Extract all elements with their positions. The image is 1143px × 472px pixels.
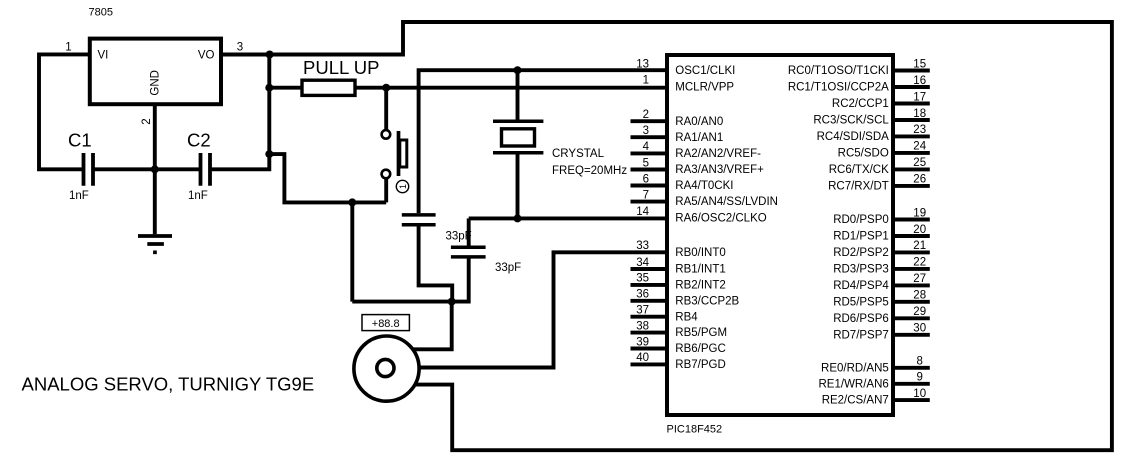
svg-text:13: 13 xyxy=(636,58,649,70)
svg-text:29: 29 xyxy=(913,306,926,318)
svg-text:28: 28 xyxy=(913,290,926,302)
svg-text:14: 14 xyxy=(636,206,649,218)
svg-text:RB3/CCP2B: RB3/CCP2B xyxy=(675,295,739,307)
crystal X1 xyxy=(493,121,543,153)
pin 35 stub xyxy=(631,283,668,287)
pin 28 stub xyxy=(893,300,930,304)
svg-text:C1: C1 xyxy=(68,130,92,151)
pin 9 stub xyxy=(893,382,930,386)
svg-text:RB0/INT0: RB0/INT0 xyxy=(675,247,726,259)
wire crystal top branch xyxy=(516,70,520,119)
svg-text:34: 34 xyxy=(636,257,649,269)
svg-text:2: 2 xyxy=(643,109,649,121)
pin 38 stub xyxy=(631,331,668,335)
svg-text:26: 26 xyxy=(913,174,926,186)
svg-text:27: 27 xyxy=(913,273,926,285)
svg-text:RD2/PSP2: RD2/PSP2 xyxy=(833,247,889,259)
pin 39 stub xyxy=(631,347,668,351)
wire cap2 bottom to rail xyxy=(352,257,468,302)
ground symbol xyxy=(138,236,172,252)
capacitor C2 xyxy=(201,153,211,186)
junction dot 5 xyxy=(514,66,522,74)
wire +5V border loop (VO to top, right, bottom, servo) xyxy=(221,22,1112,450)
svg-text:RB7/PGD: RB7/PGD xyxy=(675,359,726,371)
junction dot 6 xyxy=(514,214,522,222)
svg-text:7: 7 xyxy=(643,189,649,201)
svg-text:35: 35 xyxy=(636,273,649,285)
svg-text:RE0/RD/AN5: RE0/RD/AN5 xyxy=(821,362,889,374)
pin 24 stub xyxy=(893,151,930,155)
svg-text:MCLR/VPP: MCLR/VPP xyxy=(675,82,734,94)
svg-text:RA5/AN4/SS/LVDIN: RA5/AN4/SS/LVDIN xyxy=(675,196,778,208)
wire branch down to caps rail xyxy=(350,202,354,301)
svg-text:19: 19 xyxy=(913,207,926,219)
svg-text:22: 22 xyxy=(913,257,926,269)
svg-text:RB4: RB4 xyxy=(675,311,698,323)
junction dot 2 xyxy=(265,84,273,92)
svg-text:33pF: 33pF xyxy=(446,230,472,242)
button circled marker xyxy=(396,180,408,192)
svg-text:40: 40 xyxy=(636,352,649,364)
servo motor hub xyxy=(377,359,394,376)
svg-text:33: 33 xyxy=(636,240,649,252)
svg-text:3: 3 xyxy=(643,125,649,137)
svg-text:RD7/PSP7: RD7/PSP7 xyxy=(833,329,889,341)
svg-text:20: 20 xyxy=(913,224,926,236)
wire button top xyxy=(384,88,388,130)
svg-text:RA0/AN0: RA0/AN0 xyxy=(675,116,723,128)
svg-text:VO: VO xyxy=(198,50,215,62)
pin 29 stub xyxy=(893,316,930,320)
svg-text:PIC18F452: PIC18F452 xyxy=(667,424,723,436)
pin 4 stub xyxy=(631,151,668,155)
pin 10 stub xyxy=(893,398,930,402)
svg-text:30: 30 xyxy=(913,323,926,335)
wire C2 to +5V riser xyxy=(210,154,269,169)
wire riser to pull-up xyxy=(269,86,302,90)
pin 34 stub xyxy=(631,267,668,271)
voltage regulator 7805 xyxy=(90,39,221,105)
microcontroller U1 PIC18F452 body xyxy=(667,55,893,415)
svg-text:RB2/INT2: RB2/INT2 xyxy=(675,280,726,292)
svg-text:17: 17 xyxy=(913,91,926,103)
wire OSC1 net to PIC pin 13 xyxy=(419,70,667,213)
svg-text:39: 39 xyxy=(636,336,649,348)
resistor PULL UP xyxy=(302,80,355,95)
svg-text:OSC1/CLKI: OSC1/CLKI xyxy=(675,65,735,77)
svg-text:18: 18 xyxy=(913,108,926,120)
svg-text:16: 16 xyxy=(913,75,926,87)
svg-text:RC1/T1OSI/CCP2A: RC1/T1OSI/CCP2A xyxy=(788,82,889,94)
pin 37 stub xyxy=(631,315,668,319)
capacitor C1 xyxy=(84,153,94,186)
svg-text:RC4/SDI/SDA: RC4/SDI/SDA xyxy=(817,131,890,143)
svg-text:1nF: 1nF xyxy=(188,190,208,202)
junction dot 4 xyxy=(382,84,390,92)
pin 27 stub xyxy=(893,283,930,287)
svg-text:RB5/PGM: RB5/PGM xyxy=(675,327,727,339)
button actuator bar xyxy=(397,131,401,176)
pin 6 stub xyxy=(631,184,668,188)
pin 17 stub xyxy=(893,102,930,106)
svg-text:RC5/SDO: RC5/SDO xyxy=(838,148,889,160)
svg-text:RC0/T1OSO/T1CKI: RC0/T1OSO/T1CKI xyxy=(788,65,889,77)
svg-text:21: 21 xyxy=(913,240,926,252)
wire crystal bottom to pin14 rail xyxy=(516,155,520,219)
pin 40 stub xyxy=(631,362,668,366)
svg-text:4: 4 xyxy=(643,141,650,153)
wire cap2 riser xyxy=(467,218,471,245)
svg-text:3: 3 xyxy=(237,41,243,53)
svg-text:10: 10 xyxy=(913,388,926,400)
svg-text:RC7/RX/DT: RC7/RX/DT xyxy=(828,181,889,193)
pin 8 stub xyxy=(893,366,930,370)
svg-text:RA6/OSC2/CLKO: RA6/OSC2/CLKO xyxy=(675,213,766,225)
wire OSC2 net to PIC pin 14 xyxy=(469,216,667,220)
svg-text:1: 1 xyxy=(65,41,71,53)
pin 18 stub xyxy=(893,118,930,122)
svg-text:RB1/INT1: RB1/INT1 xyxy=(675,264,726,276)
wire C1 to C2 rail xyxy=(93,167,201,171)
display box +88.8 xyxy=(362,315,409,331)
pin 7 stub xyxy=(631,200,668,204)
svg-text:CRYSTAL: CRYSTAL xyxy=(552,148,605,160)
pin 16 stub xyxy=(893,85,930,89)
pin 26 stub xyxy=(893,184,930,188)
pin 25 stub xyxy=(893,167,930,171)
junction dot 3 xyxy=(265,150,273,158)
junction dot 8 xyxy=(348,198,356,206)
wire VI input down to C1 xyxy=(39,54,90,169)
pin 22 stub xyxy=(893,267,930,271)
svg-text:RD1/PSP1: RD1/PSP1 xyxy=(833,231,889,243)
pin 3 stub xyxy=(631,135,668,139)
svg-text:RD6/PSP6: RD6/PSP6 xyxy=(833,313,889,325)
servo motor M1 outer xyxy=(354,336,419,401)
pin 21 stub xyxy=(893,250,930,254)
svg-text:RA2/AN2/VREF-: RA2/AN2/VREF- xyxy=(675,148,761,160)
pin 30 stub xyxy=(893,333,930,337)
svg-text:2: 2 xyxy=(141,118,153,124)
svg-text:PULL UP: PULL UP xyxy=(303,57,379,78)
wire GND pin down xyxy=(153,104,157,169)
pin 5 stub xyxy=(631,168,668,172)
svg-text:RE1/WR/AN6: RE1/WR/AN6 xyxy=(819,378,889,390)
svg-text:C2: C2 xyxy=(187,130,211,151)
button contact top xyxy=(382,130,391,139)
svg-text:8: 8 xyxy=(916,356,922,368)
svg-text:23: 23 xyxy=(913,124,926,136)
svg-text:1: 1 xyxy=(643,75,649,87)
wire button bottom net xyxy=(269,154,386,202)
svg-text:24: 24 xyxy=(913,141,926,153)
junction dot 7 xyxy=(151,165,159,173)
svg-text:RE2/CS/AN7: RE2/CS/AN7 xyxy=(822,395,889,407)
svg-text:GND: GND xyxy=(150,70,162,96)
wire +5V riser xyxy=(267,55,271,155)
capacitor 33pF (right) xyxy=(451,247,486,257)
button contact bottom xyxy=(382,170,391,179)
svg-text:37: 37 xyxy=(636,305,649,317)
wire ground stem xyxy=(153,169,157,234)
svg-text:1nF: 1nF xyxy=(69,190,89,202)
pin 23 stub xyxy=(893,134,930,138)
svg-text:RA3/AN3/VREF+: RA3/AN3/VREF+ xyxy=(675,164,764,176)
svg-text:7805: 7805 xyxy=(89,7,113,19)
svg-text:33pF: 33pF xyxy=(495,262,521,274)
svg-text:5: 5 xyxy=(643,157,649,169)
pin 19 stub xyxy=(893,218,930,222)
capacitor 33pF (left) xyxy=(402,215,436,225)
svg-text:RC2/CCP1: RC2/CCP1 xyxy=(832,98,889,110)
svg-text:VI: VI xyxy=(98,50,109,62)
svg-text:RD4/PSP4: RD4/PSP4 xyxy=(833,280,889,292)
pin 2 stub xyxy=(631,119,668,123)
svg-text:ANALOG SERVO, TURNIGY TG9E: ANALOG SERVO, TURNIGY TG9E xyxy=(22,373,315,394)
button cap rectangle xyxy=(400,140,407,167)
svg-text:RD5/PSP5: RD5/PSP5 xyxy=(833,296,889,308)
svg-text:RB6/PGC: RB6/PGC xyxy=(675,343,726,355)
svg-text:RC3/SCK/SCL: RC3/SCK/SCL xyxy=(813,115,889,127)
svg-text:15: 15 xyxy=(913,58,926,70)
svg-text:RA1/AN1: RA1/AN1 xyxy=(675,132,723,144)
svg-text:RD0/PSP0: RD0/PSP0 xyxy=(833,214,889,226)
svg-text:FREQ=20MHz: FREQ=20MHz xyxy=(552,165,627,177)
wire servo signal to PIC pin 33 xyxy=(419,252,667,367)
wire junction down to servo top xyxy=(413,302,452,350)
svg-text:RC6/TX/CK: RC6/TX/CK xyxy=(829,164,889,176)
svg-text:RA4/T0CKI: RA4/T0CKI xyxy=(675,180,733,192)
pin 15 stub xyxy=(893,69,930,73)
pin 36 stub xyxy=(631,299,668,303)
svg-text:+88.8: +88.8 xyxy=(372,318,400,330)
svg-text:RD3/PSP3: RD3/PSP3 xyxy=(833,264,889,276)
svg-text:9: 9 xyxy=(916,372,922,384)
wire cap1 bottom to junction xyxy=(419,225,453,302)
wire MCLR net to PIC pin 1 xyxy=(355,86,667,90)
svg-text:6: 6 xyxy=(643,173,649,185)
pin 20 stub xyxy=(893,234,930,238)
svg-text:25: 25 xyxy=(913,157,926,169)
junction dot 9 xyxy=(448,298,456,306)
svg-text:1: 1 xyxy=(398,184,408,189)
svg-text:36: 36 xyxy=(636,289,649,301)
svg-text:38: 38 xyxy=(636,320,649,332)
junction dot 1 xyxy=(266,51,274,59)
